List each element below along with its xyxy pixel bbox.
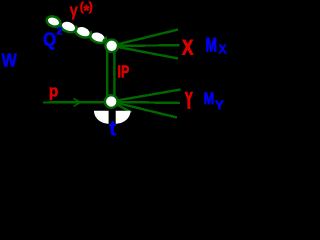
photon wave lobe 3 fill [75, 25, 91, 38]
photon wave connector to vertex [103, 40, 109, 44]
svg-text:): ) [89, 0, 93, 14]
photon wave lobe 1 fill [46, 15, 62, 28]
photon wave lobe 2 fill [61, 20, 77, 33]
pomeron double line right [113, 50, 115, 98]
Y-system fan line 2 [111, 102, 180, 103]
photon wave lobe 4 fill [90, 31, 106, 44]
svg-text:t: t [109, 116, 116, 137]
svg-text:Y: Y [215, 98, 224, 112]
label Y [184, 92, 193, 109]
X-system fan line 3 [112, 46, 178, 59]
svg-text:Q: Q [43, 28, 56, 49]
svg-text:IP: IP [118, 62, 130, 82]
proton beam line [43, 101, 111, 104]
svg-text:X: X [182, 36, 193, 59]
proton arrowhead [74, 98, 81, 106]
svg-text:M: M [204, 90, 215, 108]
Y-system fan line 3 [111, 102, 177, 118]
photon wave lobe 3 ring [75, 28, 91, 38]
svg-text:2: 2 [57, 25, 63, 37]
Y-system fan line 4 (short) [111, 102, 131, 113]
X-system fan line 2 [112, 44, 180, 47]
svg-text:γ: γ [70, 0, 79, 20]
proton remnant left quarter-disc [94, 111, 109, 124]
svg-text:W: W [2, 50, 18, 71]
photon wave lobe 2 ring [61, 23, 77, 33]
upper vertex blob [105, 40, 118, 53]
photon wave lobe 1 ring [47, 16, 61, 26]
svg-text:p: p [49, 81, 58, 100]
svg-text:X: X [218, 42, 227, 57]
lower vertex blob [105, 95, 118, 108]
proton remnant right quarter-disc [116, 111, 131, 124]
svg-text:M: M [206, 35, 218, 56]
photon wave lobe 4 ring [90, 33, 106, 43]
Y-system fan line 1 [111, 90, 180, 102]
X-system fan line 1 [112, 30, 178, 46]
pomeron double line left [106, 50, 108, 98]
